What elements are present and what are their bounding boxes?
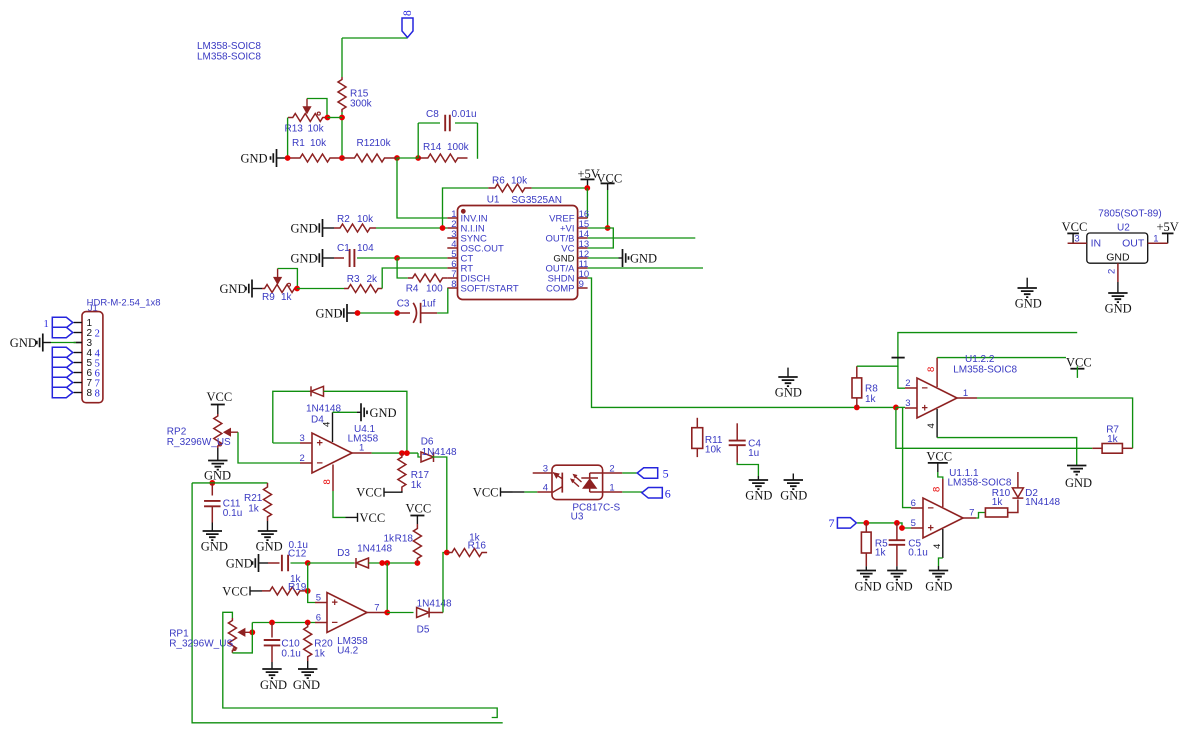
wire (532, 187, 588, 189)
junction (863, 520, 905, 531)
wire (537, 491, 552, 493)
svg-text:7805(SOT-89): 7805(SOT-89) (1098, 209, 1161, 220)
capacitor C8 (426, 109, 477, 131)
ground (204, 461, 231, 483)
power VCC (597, 171, 623, 185)
wire (271, 662, 273, 669)
wire (376, 227, 447, 229)
wire (308, 563, 315, 603)
pin 8 (322, 465, 333, 492)
svg-text:GND: GND (291, 222, 318, 236)
svg-text:GND: GND (925, 580, 952, 594)
svg-text:4: 4 (543, 483, 548, 494)
wire (622, 491, 642, 493)
svg-text:R21: R21 (244, 493, 263, 504)
ground (775, 368, 802, 400)
svg-text:R14: R14 (423, 142, 442, 153)
diode D4 (306, 386, 341, 425)
svg-text:GND: GND (226, 557, 253, 571)
junction (249, 629, 255, 635)
label U2 (1098, 209, 1161, 234)
svg-text:R19: R19 (288, 582, 307, 593)
resistor R15 (338, 77, 373, 112)
wire (397, 257, 447, 259)
wire (333, 411, 358, 413)
wire (223, 612, 497, 717)
svg-text:1N4148: 1N4148 (417, 599, 452, 610)
wire (977, 398, 1133, 448)
ground (1105, 293, 1132, 316)
ground (220, 280, 263, 298)
wire (586, 188, 588, 218)
wire (358, 312, 398, 314)
connector J1 (74, 312, 103, 403)
capacitor C1 (337, 243, 374, 267)
node 7 flag (829, 516, 857, 530)
svg-text:5: 5 (663, 467, 669, 481)
svg-text:U1.2.2: U1.2.2 (965, 354, 995, 365)
svg-text:GND: GND (220, 282, 247, 296)
svg-text:6: 6 (911, 498, 916, 509)
wire (357, 257, 397, 259)
svg-text:100k: 100k (447, 142, 470, 153)
capacitor C5 (889, 523, 928, 566)
wire (432, 457, 447, 553)
wire (334, 257, 344, 259)
pin 2 (905, 378, 917, 389)
svg-text:8: 8 (402, 10, 414, 16)
resistor R21 (244, 483, 272, 521)
svg-text:GND: GND (204, 469, 231, 483)
diode D6 (421, 437, 457, 463)
svg-text:8: 8 (87, 388, 93, 399)
svg-text:R2: R2 (337, 214, 350, 225)
power +5V (1157, 220, 1179, 243)
diode D3 (337, 544, 392, 569)
svg-text:3: 3 (543, 463, 548, 474)
svg-text:2: 2 (300, 453, 305, 464)
svg-text:R16: R16 (468, 541, 487, 552)
svg-text:1k: 1k (865, 394, 877, 405)
wire (267, 521, 269, 531)
svg-text:−: − (922, 383, 928, 395)
svg-text:SOFT/START: SOFT/START (461, 284, 519, 295)
ground (291, 249, 335, 267)
svg-text:2: 2 (905, 378, 910, 389)
svg-text:8: 8 (932, 487, 943, 492)
resistor R5 (861, 523, 888, 566)
potentiometer R9 (262, 269, 297, 303)
power VCC (1062, 220, 1088, 243)
svg-text:R12: R12 (357, 138, 376, 149)
junction (305, 560, 311, 566)
svg-text:IN: IN (1091, 237, 1102, 249)
svg-text:VCC: VCC (406, 502, 432, 516)
capacitor C3 (397, 299, 436, 324)
wire (268, 562, 280, 564)
svg-text:GND: GND (293, 678, 320, 692)
op-amp U4.2 (327, 593, 367, 633)
svg-text:GND: GND (256, 540, 283, 554)
wire (421, 312, 438, 314)
resistor R1 (288, 138, 342, 162)
svg-text:VCC: VCC (360, 511, 386, 525)
svg-text:GND: GND (316, 307, 343, 321)
svg-text:VCC: VCC (473, 486, 499, 500)
svg-text:2: 2 (1107, 269, 1118, 274)
junction (294, 286, 300, 292)
junction (305, 588, 311, 594)
resistor R10 (985, 488, 1010, 517)
svg-text:104: 104 (357, 243, 374, 254)
op-amp U4.1 (312, 433, 352, 473)
wire (328, 117, 343, 119)
optocoupler U3 PC817C-S (552, 465, 603, 499)
power VCC (406, 502, 432, 525)
pin 5 (315, 593, 327, 604)
wire (324, 391, 407, 453)
svg-text:−: − (317, 458, 323, 470)
svg-text:1u: 1u (748, 448, 759, 459)
node 6 flag (642, 487, 671, 501)
svg-text:C3: C3 (397, 299, 410, 310)
svg-text:0.1u: 0.1u (223, 508, 242, 519)
wire (937, 357, 1066, 359)
svg-text:1N4148: 1N4148 (306, 404, 341, 415)
svg-text:−: − (332, 617, 338, 629)
svg-text:1k: 1k (1107, 434, 1119, 445)
resistor R6 (488, 176, 531, 193)
svg-text:GND: GND (201, 540, 228, 554)
regulator U2 7805 (1087, 233, 1148, 263)
svg-text:VCC: VCC (1066, 356, 1092, 370)
svg-text:+: + (332, 597, 338, 609)
pin 3 (1068, 234, 1087, 245)
ground (357, 403, 397, 421)
svg-text:GND: GND (1106, 251, 1130, 263)
svg-text:VCC: VCC (1062, 220, 1088, 234)
pin 2 (603, 463, 623, 474)
pin 3 (300, 433, 313, 444)
potentiometer RP1 (169, 618, 251, 653)
svg-text:1: 1 (963, 388, 968, 399)
svg-text:7: 7 (374, 603, 379, 614)
capacitor C11 (204, 499, 242, 523)
pin 8 (932, 479, 943, 507)
junction (209, 480, 215, 486)
wire (238, 432, 300, 463)
op-amp U1.2.2 (917, 378, 957, 418)
wire (278, 269, 298, 289)
potentiometer RP2 (167, 414, 238, 448)
svg-text:+5V: +5V (1157, 220, 1179, 234)
resistor R14 (418, 142, 469, 162)
svg-text:R3: R3 (347, 274, 360, 285)
power VCC flag (356, 486, 396, 500)
resistor R7 (1092, 425, 1132, 454)
svg-text:VCC: VCC (926, 450, 952, 464)
svg-text:GND: GND (630, 252, 657, 266)
pin 7 (367, 603, 387, 614)
svg-text:SG3525AN: SG3525AN (511, 195, 562, 206)
svg-text:RP2: RP2 (167, 427, 187, 438)
svg-text:3: 3 (905, 398, 910, 409)
wire (737, 463, 758, 476)
svg-text:0.1u: 0.1u (281, 649, 300, 660)
svg-text:C8: C8 (426, 109, 439, 120)
label U1 (487, 195, 562, 207)
wire (896, 406, 905, 408)
svg-text:R4: R4 (406, 284, 419, 295)
wire (437, 288, 448, 313)
svg-text:5: 5 (911, 518, 916, 529)
svg-text:1: 1 (1153, 234, 1158, 245)
power +5V (578, 167, 600, 188)
svg-text:2: 2 (95, 328, 100, 339)
wire (1117, 282, 1119, 293)
wire (443, 553, 447, 613)
svg-text:VCC: VCC (356, 486, 382, 500)
svg-text:D5: D5 (417, 625, 430, 636)
svg-text:4: 4 (932, 544, 943, 549)
svg-text:2: 2 (609, 463, 614, 474)
svg-text:1k: 1k (992, 497, 1004, 508)
resistor R16 (447, 533, 487, 557)
svg-text:1N4148: 1N4148 (1025, 497, 1060, 508)
svg-text:GND: GND (775, 386, 802, 400)
svg-text:1k: 1k (384, 534, 396, 545)
wire (287, 118, 289, 159)
wire (341, 112, 343, 158)
pin 2 (300, 453, 313, 464)
ground (201, 531, 228, 554)
pin 4 (926, 409, 937, 438)
label U1.1.1 (948, 468, 1012, 489)
svg-text:GND: GND (886, 580, 913, 594)
wire (297, 288, 344, 290)
node 6 flag (52, 367, 73, 378)
svg-text:1k: 1k (875, 548, 887, 559)
pin 6 (911, 498, 923, 509)
junction (355, 310, 400, 316)
wire (938, 566, 940, 571)
svg-text:8: 8 (926, 367, 937, 372)
svg-text:U4.2: U4.2 (337, 646, 359, 657)
svg-text:3: 3 (300, 433, 305, 444)
svg-text:GND: GND (1065, 476, 1092, 490)
LM358-SOIC8 labels (197, 41, 261, 63)
wire (273, 391, 311, 443)
svg-text:−: − (928, 503, 934, 515)
wire (369, 562, 418, 564)
svg-text:8: 8 (322, 479, 333, 484)
svg-text:GND: GND (241, 152, 268, 166)
svg-text:7: 7 (969, 508, 974, 519)
svg-text:VCC: VCC (207, 390, 233, 404)
junction (269, 620, 311, 626)
svg-text:10k: 10k (705, 444, 722, 455)
ground (619, 249, 658, 267)
wire (291, 562, 308, 564)
wire (397, 312, 410, 314)
op-amp U1.1.1 (923, 498, 963, 538)
wire (252, 622, 315, 624)
wire (896, 566, 898, 570)
svg-text:6: 6 (665, 487, 671, 501)
svg-text:9: 9 (579, 279, 584, 290)
wire (418, 123, 440, 158)
power VCC bar (601, 183, 615, 190)
ground (256, 531, 283, 554)
svg-text:GND: GND (745, 489, 772, 503)
junction (399, 450, 410, 456)
wire (192, 483, 503, 723)
wire (342, 38, 408, 77)
ground (855, 571, 882, 594)
svg-text:R18: R18 (395, 534, 414, 545)
wire (443, 188, 489, 228)
wire (896, 407, 1092, 448)
wire (396, 491, 402, 492)
pin 6 (315, 613, 327, 624)
wire (607, 190, 609, 228)
svg-text:+: + (928, 523, 934, 535)
label U4.2 (337, 636, 368, 657)
svg-text:1: 1 (44, 319, 49, 330)
ground (241, 149, 288, 167)
wire (217, 448, 219, 461)
junction (394, 255, 400, 261)
svg-text:LM358-SOIC8: LM358-SOIC8 (197, 52, 261, 63)
svg-text:GND: GND (10, 336, 37, 350)
svg-text:R_3296W_US: R_3296W_US (167, 437, 231, 448)
wire (588, 228, 614, 248)
svg-text:1: 1 (609, 483, 614, 494)
power VCC (207, 390, 233, 414)
wire (898, 366, 905, 388)
svg-text:GND: GND (291, 252, 318, 266)
svg-text:D6: D6 (421, 437, 434, 448)
pin 5 (911, 518, 923, 529)
node 7 flag (52, 377, 73, 388)
junction (325, 115, 345, 121)
svg-text:OUT: OUT (1122, 237, 1145, 249)
resistor R2 (334, 214, 376, 232)
wire (1008, 500, 1018, 513)
wire SHDN (588, 278, 896, 407)
svg-text:GND: GND (1105, 302, 1132, 316)
wire (938, 472, 943, 479)
wire (372, 452, 418, 454)
wire (397, 158, 447, 218)
resistor R17 (398, 453, 430, 491)
svg-text:1k: 1k (411, 480, 423, 491)
svg-text:R9: R9 (262, 292, 275, 303)
power VCC flag (473, 486, 525, 500)
svg-text:R1: R1 (292, 138, 305, 149)
node 4 flag (52, 347, 73, 358)
power VCC (1066, 356, 1092, 378)
node 8 flag (402, 10, 414, 38)
wire (211, 523, 213, 532)
svg-text:10k: 10k (511, 176, 528, 187)
pin 2 (1107, 263, 1118, 282)
pin 1 (1148, 234, 1168, 245)
junction (440, 225, 446, 231)
pin 3 stub (533, 463, 552, 493)
potentiometer R13 (285, 99, 328, 135)
svg-text:D4: D4 (311, 415, 324, 426)
power VCC flag (346, 511, 386, 525)
svg-text:U3: U3 (571, 512, 584, 523)
svg-text:10k: 10k (310, 138, 327, 149)
pin 1 (603, 483, 623, 494)
junction (854, 405, 899, 411)
ground (226, 554, 268, 572)
ground (293, 669, 320, 692)
wire (524, 491, 537, 493)
svg-text:8: 8 (95, 388, 100, 399)
wire (307, 661, 309, 669)
pin 1 (957, 388, 977, 399)
wire (418, 453, 421, 457)
ground (260, 669, 287, 692)
resistor R8 (852, 366, 878, 407)
node 1 flag (44, 317, 73, 330)
svg-text:GND: GND (370, 406, 397, 420)
svg-text:U1: U1 (487, 195, 500, 206)
svg-text:C1: C1 (337, 243, 350, 254)
svg-text:COMP: COMP (546, 284, 575, 295)
wire (976, 513, 985, 519)
pin 4 (322, 412, 333, 442)
capacitor C12 (282, 540, 308, 571)
svg-text:300k: 300k (350, 99, 373, 110)
node 8 flag (52, 387, 73, 398)
wire (428, 612, 443, 614)
pin 8 (926, 358, 937, 387)
svg-text:GND: GND (260, 678, 287, 692)
ground (886, 571, 913, 594)
capacitor C10 (264, 623, 301, 663)
power VCC flag (222, 584, 262, 598)
ground (316, 304, 358, 322)
svg-text:GND: GND (1015, 297, 1042, 311)
wire (51, 342, 82, 344)
wire (308, 562, 355, 564)
power VCC (926, 450, 952, 473)
svg-text:GND: GND (855, 580, 882, 594)
diode D5 (417, 599, 452, 636)
svg-text:1k: 1k (248, 504, 260, 515)
ground (925, 571, 952, 594)
svg-text:100: 100 (426, 284, 443, 295)
diode D2 (1012, 472, 1060, 508)
svg-text:+: + (922, 403, 928, 415)
wire (903, 407, 911, 507)
label J1 HDR (87, 298, 161, 314)
svg-text:C12: C12 (288, 549, 307, 560)
svg-text:4: 4 (926, 423, 937, 428)
IC U1 SG3525AN (447, 206, 589, 300)
wire (857, 523, 911, 528)
ground (1065, 466, 1092, 491)
wire (387, 612, 413, 614)
wire OUT/A (588, 267, 703, 269)
svg-text:D3: D3 (337, 548, 350, 559)
label U1.2.2 (953, 354, 1017, 376)
ground (291, 219, 335, 237)
